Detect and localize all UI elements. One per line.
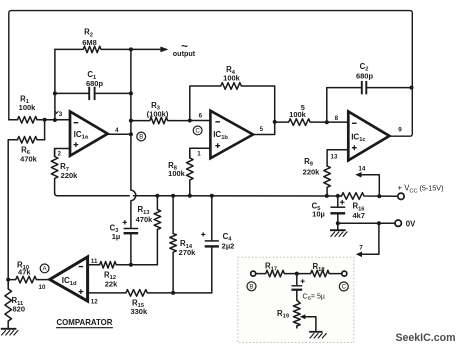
svg-text:820: 820 bbox=[13, 304, 26, 313]
svg-text:4: 4 bbox=[115, 127, 119, 134]
resistor R14 270k bbox=[170, 196, 177, 293]
svg-text:2µ2: 2µ2 bbox=[222, 242, 235, 251]
IC1c plus bbox=[352, 145, 357, 150]
wire frame feedback loop (top border and right return to IC1c output) bbox=[9, 11, 413, 137]
inset junction dot bbox=[295, 272, 299, 276]
svg-text:C: C bbox=[342, 284, 347, 291]
pin7 arrowhead bbox=[356, 252, 362, 258]
resistor R7 220k bbox=[51, 149, 58, 194]
svg-text:14: 14 bbox=[358, 166, 366, 173]
svg-text:470k: 470k bbox=[20, 154, 38, 163]
ground below C5 bbox=[337, 223, 339, 230]
svg-text:6M8: 6M8 bbox=[82, 38, 97, 47]
IC1a plus bbox=[74, 142, 79, 147]
inset node C circle bbox=[339, 282, 348, 291]
svg-text:1: 1 bbox=[197, 150, 201, 157]
svg-text:B: B bbox=[249, 284, 253, 291]
svg-text:9: 9 bbox=[398, 127, 402, 134]
svg-text:330k: 330k bbox=[130, 307, 148, 316]
output arrow bbox=[160, 47, 168, 53]
resistor R19 preset bbox=[293, 300, 300, 328]
wire IC1c pin13 bbox=[327, 150, 348, 166]
wire R2/C1 left vertical bbox=[54, 49, 56, 120]
inset terminal B bbox=[251, 271, 256, 276]
junction dot C2/feedback bbox=[410, 86, 414, 90]
svg-text:220k: 220k bbox=[303, 168, 321, 177]
junction dot R5/C2 bbox=[325, 120, 329, 124]
C4 plus bbox=[201, 232, 205, 236]
C6 plus bbox=[301, 279, 305, 283]
svg-text:470k: 470k bbox=[136, 215, 154, 224]
svg-text:220k: 220k bbox=[61, 171, 79, 180]
capacitor C4 2u2 bbox=[211, 196, 213, 293]
resistor R8 100k bbox=[187, 148, 194, 196]
resistor R9 220k bbox=[324, 166, 331, 196]
junction dot output/R4/R5 bbox=[273, 120, 277, 124]
svg-text:22k: 22k bbox=[105, 279, 118, 288]
resistor R6 470k bbox=[8, 137, 44, 144]
svg-text:10: 10 bbox=[39, 284, 46, 291]
C5 plus bbox=[340, 200, 345, 205]
svg-text:100k: 100k bbox=[223, 74, 241, 83]
junction dots on node B vertical bbox=[129, 47, 133, 51]
wire pin7 branch bbox=[361, 223, 379, 254]
inset node B circle bbox=[247, 282, 256, 291]
op-amp IC1c bbox=[348, 112, 389, 161]
capacitor C5 10u bbox=[337, 196, 339, 223]
resistor R1 100k bbox=[9, 117, 70, 124]
svg-text:10µ: 10µ bbox=[312, 209, 325, 218]
svg-text:B: B bbox=[139, 134, 143, 141]
svg-text:(100k): (100k) bbox=[147, 110, 169, 119]
junction dot C3/R12 bbox=[129, 263, 133, 267]
wire bias bus left bbox=[55, 193, 130, 196]
svg-text:100k: 100k bbox=[289, 110, 307, 119]
resistor R3 100k bbox=[131, 117, 190, 124]
svg-text:C: C bbox=[195, 128, 200, 135]
wire IC1b output jog bbox=[253, 122, 275, 135]
wire bias bus right of hop bbox=[134, 195, 342, 197]
terminal 0V bbox=[395, 220, 401, 226]
ground below R11 bbox=[1, 328, 17, 330]
inset terminal C bbox=[342, 271, 347, 276]
svg-text:100k: 100k bbox=[168, 169, 186, 178]
wire pin6 bbox=[190, 120, 211, 122]
op-amp IC1d bbox=[50, 257, 88, 301]
svg-text:680p: 680p bbox=[356, 71, 374, 80]
capacitor C2 680p bbox=[327, 87, 412, 89]
op-amp IC1a bbox=[70, 112, 108, 156]
terminal +Vcc bbox=[398, 193, 404, 199]
resistor R13 470k bbox=[154, 196, 161, 265]
wire left rail lower bbox=[7, 140, 9, 287]
resistor R2 6M8 bbox=[55, 46, 160, 53]
resistor R10 47k bbox=[8, 276, 50, 283]
svg-text:3: 3 bbox=[59, 111, 63, 118]
resistor R11 820 bbox=[5, 280, 12, 329]
junction dots on bias bus bbox=[155, 194, 159, 198]
R19 wiper arrow bbox=[305, 317, 316, 332]
resistor R5 100k bbox=[275, 119, 349, 126]
svg-text:COMPARATOR: COMPARATOR bbox=[57, 318, 113, 327]
node B circle bbox=[137, 132, 146, 141]
wire R6 jog up to pin3 node bbox=[44, 120, 46, 140]
svg-text:6: 6 bbox=[199, 113, 203, 120]
resistor R17 bbox=[256, 270, 297, 277]
wire pin14 branch bbox=[361, 175, 379, 196]
resistor R18 bbox=[297, 270, 342, 277]
resistor R12 22k bbox=[88, 262, 158, 269]
svg-text:5: 5 bbox=[260, 126, 264, 133]
ground below R19 bbox=[309, 331, 322, 333]
wire IC1a pin2 bbox=[55, 149, 70, 157]
junction dot R3/R4/pin6 bbox=[188, 119, 192, 123]
resistor R4 100k feedback bbox=[190, 83, 275, 122]
svg-text:4k7: 4k7 bbox=[353, 211, 366, 220]
capacitor C1 680p bbox=[55, 92, 131, 94]
svg-text:47k: 47k bbox=[18, 268, 31, 277]
svg-text:270k: 270k bbox=[179, 248, 197, 257]
resistor R15 330k bbox=[88, 290, 212, 297]
svg-text:680p: 680p bbox=[86, 79, 104, 88]
svg-text:1µ: 1µ bbox=[112, 232, 121, 241]
svg-text:2: 2 bbox=[57, 151, 61, 158]
wire node B vertical (output to C3) with crossover hop bbox=[131, 49, 136, 228]
IC1b plus bbox=[215, 143, 220, 148]
op-amp IC1b bbox=[210, 111, 253, 159]
svg-text:7: 7 bbox=[359, 244, 363, 251]
svg-text:0V: 0V bbox=[406, 219, 416, 228]
junction dot R14/R15 bbox=[171, 291, 175, 295]
IC1c minus bbox=[352, 122, 357, 124]
svg-text:11: 11 bbox=[91, 258, 98, 265]
junction dot rail/R10 bbox=[6, 278, 10, 282]
svg-text:8: 8 bbox=[335, 115, 339, 122]
junction dots pin3 node bbox=[43, 118, 47, 122]
IC1d minus bbox=[79, 266, 84, 268]
wire C2 left vertical bbox=[326, 88, 328, 123]
svg-text:100k: 100k bbox=[19, 103, 37, 112]
capacitor C6 5u bbox=[296, 274, 298, 301]
svg-text:12: 12 bbox=[91, 298, 98, 305]
svg-text:SeekIC.com: SeekIC.com bbox=[395, 332, 455, 344]
IC1b minus bbox=[215, 121, 220, 123]
wire 0V bbox=[338, 222, 395, 224]
C3 plus bbox=[123, 220, 127, 224]
capacitor C3 1u bbox=[130, 234, 132, 265]
resistor R16 4k7 on Vcc rail bbox=[342, 193, 398, 200]
svg-text:13: 13 bbox=[331, 154, 338, 161]
wire IC1a output to node B vertical bbox=[108, 133, 131, 135]
IC1a minus bbox=[74, 122, 79, 124]
IC1d plus bbox=[79, 289, 84, 294]
tick near pin 3 bbox=[56, 111, 59, 114]
junction dots 0V bbox=[336, 221, 340, 225]
svg-text:output: output bbox=[173, 49, 196, 58]
node C circle bbox=[193, 126, 202, 135]
pin14 arrowhead bbox=[355, 172, 361, 178]
inset dashed box bbox=[238, 257, 354, 342]
wire IC1b pin1 bbox=[190, 148, 211, 158]
node A circle bbox=[40, 264, 49, 273]
